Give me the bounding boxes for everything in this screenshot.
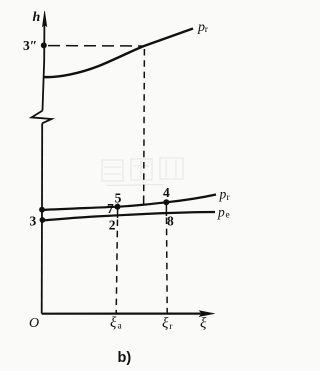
svg-text:ξ: ξ xyxy=(162,316,169,332)
svg-text:ξ: ξ xyxy=(200,316,207,332)
svg-text:h: h xyxy=(33,10,41,25)
point 4 xyxy=(163,199,169,205)
svg-text:p: p xyxy=(217,204,225,219)
dashed line xi_a xyxy=(117,204,119,219)
svg-text:e: e xyxy=(226,211,230,221)
svg-text:p: p xyxy=(197,20,205,35)
dashed line vertical at pressure-drop xyxy=(143,49,146,195)
point 5/7 xyxy=(115,204,121,210)
point 3 xyxy=(40,217,46,223)
x-axis arrowhead xyxy=(199,311,215,317)
dashed line xi_r xyxy=(165,202,167,216)
point 3'' xyxy=(41,42,47,48)
svg-text:5: 5 xyxy=(115,191,122,206)
svg-text:ξ: ξ xyxy=(110,315,117,331)
svg-text:b): b) xyxy=(118,350,132,366)
curve p_e xyxy=(42,212,215,221)
curve p_r (top) xyxy=(44,29,193,78)
svg-text:O: O xyxy=(29,316,39,331)
dashed line 3''-horizontal xyxy=(48,45,143,47)
point on axis (p_r middle) xyxy=(39,207,45,213)
watermark (faint) xyxy=(102,158,183,186)
svg-text:2: 2 xyxy=(109,218,116,233)
svg-text:p: p xyxy=(219,186,227,201)
svg-text:4: 4 xyxy=(163,185,170,200)
svg-text:3: 3 xyxy=(30,214,37,229)
svg-text:7: 7 xyxy=(107,201,114,216)
svg-text:8: 8 xyxy=(167,214,174,229)
svg-text:3″: 3″ xyxy=(23,38,37,53)
h-axis arrowhead xyxy=(42,11,46,27)
x-axis xyxy=(42,313,207,315)
curve p_r (middle) xyxy=(42,195,216,211)
h-axis (vertical, with break) xyxy=(32,24,52,314)
